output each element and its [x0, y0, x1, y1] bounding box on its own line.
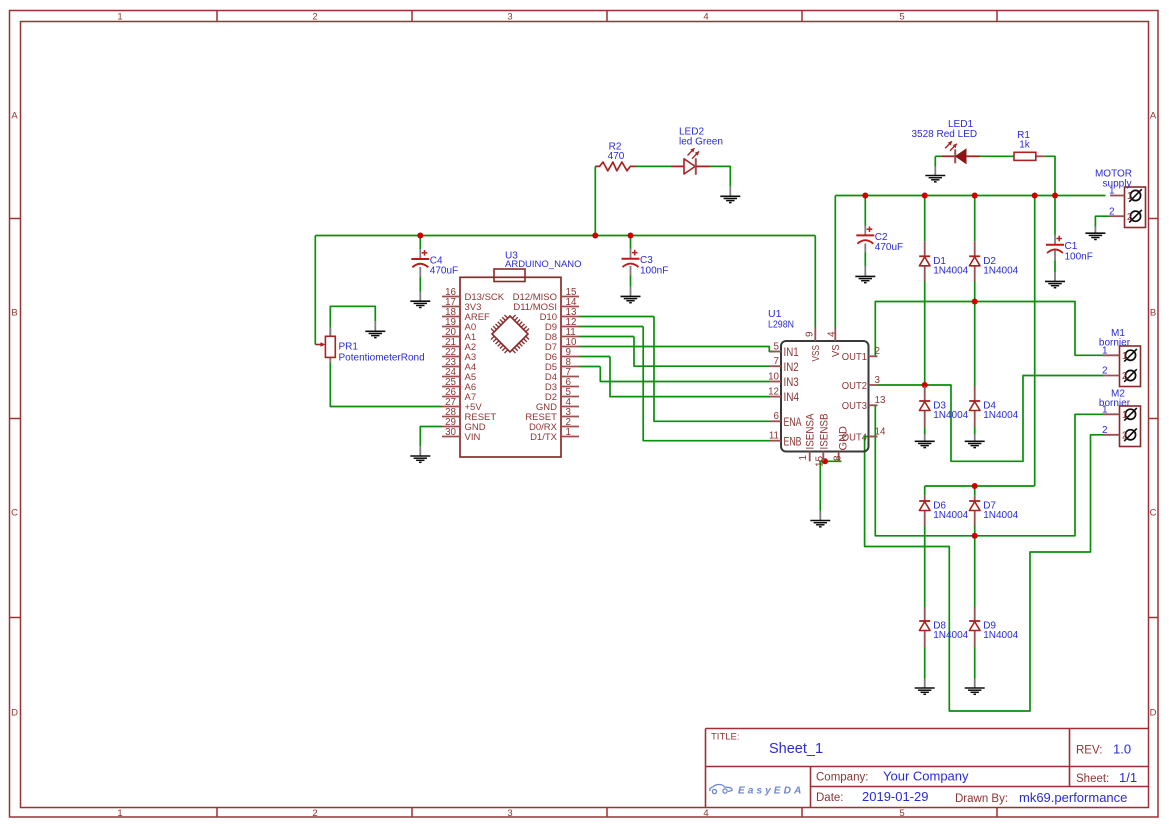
svg-text:ENA: ENA	[784, 415, 803, 429]
svg-text:1N4004: 1N4004	[983, 266, 1018, 277]
svg-text:1: 1	[566, 427, 571, 438]
svg-text:REV:: REV:	[1076, 745, 1102, 757]
svg-text:1: 1	[117, 11, 122, 22]
svg-text:2: 2	[312, 808, 317, 819]
svg-text:9: 9	[805, 331, 816, 337]
svg-text:7: 7	[774, 356, 779, 367]
svg-text:1k: 1k	[1019, 140, 1031, 151]
svg-text:3528 Red LED: 3528 Red LED	[912, 129, 978, 140]
svg-text:100nF: 100nF	[640, 265, 668, 276]
svg-text:1.0: 1.0	[1113, 742, 1131, 757]
svg-text:VS: VS	[831, 344, 842, 357]
svg-text:1N4004: 1N4004	[933, 266, 968, 277]
svg-text:IN3: IN3	[784, 375, 799, 389]
svg-text:2: 2	[875, 346, 880, 357]
svg-text:470uF: 470uF	[875, 242, 903, 253]
svg-text:1N4004: 1N4004	[933, 410, 968, 421]
svg-text:C: C	[11, 508, 18, 519]
svg-text:A: A	[11, 111, 18, 122]
svg-text:100nF: 100nF	[1065, 251, 1093, 262]
svg-text:ISENSB: ISENSB	[818, 414, 830, 450]
svg-text:1N4004: 1N4004	[933, 510, 968, 521]
svg-text:5: 5	[774, 341, 780, 352]
svg-text:2: 2	[1102, 425, 1108, 436]
svg-text:Drawn By:: Drawn By:	[955, 793, 1008, 805]
svg-text:B: B	[1150, 308, 1156, 319]
svg-text:2: 2	[312, 11, 317, 22]
svg-text:OUT2: OUT2	[842, 381, 867, 392]
svg-text:2: 2	[1127, 212, 1133, 223]
svg-text:2019-01-29: 2019-01-29	[862, 789, 929, 804]
svg-text:15: 15	[815, 455, 826, 467]
svg-text:8: 8	[833, 455, 844, 461]
svg-text:PotentiometerRond: PotentiometerRond	[339, 352, 425, 363]
svg-text:4: 4	[703, 808, 708, 819]
svg-text:4: 4	[827, 331, 838, 337]
svg-text:bornier: bornier	[1099, 398, 1131, 409]
svg-text:Date:: Date:	[816, 792, 844, 804]
svg-text:1N4004: 1N4004	[933, 630, 968, 641]
svg-text:IN2: IN2	[784, 360, 799, 374]
svg-text:B: B	[11, 308, 17, 319]
svg-text:2: 2	[1122, 371, 1128, 382]
svg-text:ARDUINO_NANO: ARDUINO_NANO	[505, 259, 582, 270]
svg-text:10: 10	[768, 371, 779, 382]
svg-text:OUT1: OUT1	[842, 352, 867, 363]
svg-text:Company:: Company:	[816, 772, 868, 784]
svg-text:D: D	[1150, 708, 1157, 719]
svg-text:VSS: VSS	[811, 345, 822, 362]
svg-text:U1: U1	[768, 308, 782, 320]
svg-text:470: 470	[608, 151, 625, 162]
svg-text:1: 1	[1122, 410, 1128, 421]
svg-text:14: 14	[875, 426, 886, 437]
svg-text:3: 3	[507, 808, 512, 819]
svg-text:1: 1	[798, 455, 809, 461]
svg-text:mk69.performance: mk69.performance	[1019, 790, 1127, 805]
svg-text:GND: GND	[838, 426, 850, 451]
svg-text:1: 1	[1122, 351, 1128, 362]
svg-text:1: 1	[117, 808, 122, 819]
svg-text:D: D	[11, 708, 18, 719]
svg-text:11: 11	[769, 431, 779, 442]
svg-text:C: C	[1150, 508, 1157, 519]
svg-text:1/1: 1/1	[1119, 770, 1137, 785]
svg-text:led Green: led Green	[679, 137, 723, 148]
svg-text:12: 12	[768, 386, 779, 397]
svg-text:ISENSA: ISENSA	[805, 413, 817, 450]
svg-text:A: A	[1150, 111, 1157, 122]
svg-text:1N4004: 1N4004	[983, 630, 1018, 641]
svg-text:L298N: L298N	[768, 320, 794, 331]
svg-text:bornier: bornier	[1099, 338, 1131, 349]
svg-text:1N4004: 1N4004	[983, 410, 1018, 421]
svg-text:Your Company: Your Company	[883, 769, 969, 784]
svg-text:3: 3	[875, 375, 881, 386]
svg-text:6: 6	[774, 411, 780, 422]
svg-text:ENB: ENB	[784, 434, 802, 448]
svg-text:supply: supply	[1103, 178, 1132, 189]
svg-text:PR1: PR1	[339, 342, 359, 353]
svg-text:VIN: VIN	[465, 432, 481, 443]
svg-text:3: 3	[507, 11, 512, 22]
svg-text:EasyEDA: EasyEDA	[738, 786, 804, 797]
svg-text:30: 30	[445, 427, 456, 438]
svg-text:OUT3: OUT3	[842, 401, 867, 412]
svg-text:470uF: 470uF	[430, 266, 458, 277]
svg-text:13: 13	[875, 395, 886, 406]
svg-text:2: 2	[1109, 206, 1115, 217]
svg-text:IN4: IN4	[784, 390, 800, 404]
svg-text:1: 1	[1127, 191, 1133, 202]
svg-text:TITLE:: TITLE:	[711, 732, 740, 743]
svg-text:4: 4	[703, 11, 708, 22]
svg-text:D1/TX: D1/TX	[530, 432, 558, 443]
svg-text:5: 5	[899, 11, 904, 22]
svg-text:1N4004: 1N4004	[983, 510, 1018, 521]
svg-text:Sheet_1: Sheet_1	[769, 741, 823, 757]
svg-text:IN1: IN1	[784, 345, 799, 359]
svg-text:5: 5	[899, 808, 904, 819]
svg-text:2: 2	[1122, 430, 1128, 441]
svg-text:2: 2	[1102, 366, 1108, 377]
svg-text:Sheet:: Sheet:	[1076, 773, 1109, 785]
